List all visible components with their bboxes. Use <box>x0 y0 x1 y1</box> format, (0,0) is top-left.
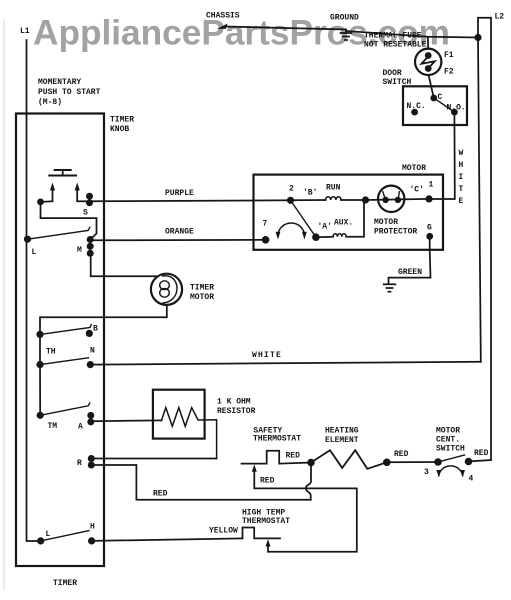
svg-text:T: T <box>459 185 464 194</box>
switch blade L to M <box>28 227 90 239</box>
wire R upper to resistor <box>91 458 216 460</box>
node B <box>86 330 93 337</box>
svg-text:F1: F1 <box>444 51 454 60</box>
node TH lower <box>36 361 43 368</box>
scan edge artifact <box>3 20 5 590</box>
svg-text:'B': 'B' <box>303 189 317 198</box>
wire chassis to ground <box>225 27 346 30</box>
svg-text:RED: RED <box>286 452 301 461</box>
svg-text:L: L <box>32 248 37 257</box>
WHITE vertical label <box>459 149 464 206</box>
chassis arrow <box>217 24 228 30</box>
node 1 ('C') <box>425 195 432 202</box>
wire fuse to door switch C <box>429 75 434 97</box>
svg-text:H: H <box>90 523 95 532</box>
wire L1 vertical <box>27 40 41 541</box>
svg-text:RED: RED <box>153 490 168 499</box>
svg-text:RED: RED <box>474 449 489 458</box>
node H <box>88 537 95 544</box>
node M <box>87 236 94 243</box>
node G <box>426 233 433 240</box>
svg-text:N: N <box>90 347 95 356</box>
timer motor <box>151 274 182 305</box>
svg-text:RED: RED <box>260 477 275 486</box>
svg-text:WHITE: WHITE <box>252 351 282 360</box>
svg-text:1: 1 <box>429 181 434 190</box>
svg-text:TM: TM <box>48 422 58 431</box>
centrifugal swing arrow <box>278 223 304 236</box>
motor box <box>254 175 444 250</box>
motor protector U <box>366 199 430 200</box>
svg-text:H: H <box>459 161 464 170</box>
wire A to resistor <box>91 419 162 422</box>
svg-text:PROTECTOR: PROTECTOR <box>374 228 417 237</box>
svg-text:NOT RESETABLE: NOT RESETABLE <box>364 41 427 50</box>
wire timer motor to TH common <box>40 306 167 335</box>
svg-text:CHASSIS: CHASSIS <box>206 12 240 21</box>
svg-text:GROUND: GROUND <box>330 14 359 23</box>
svg-text:HEATING: HEATING <box>325 427 359 436</box>
node A <box>87 412 94 419</box>
svg-text:A: A <box>78 423 83 432</box>
svg-text:4: 4 <box>469 475 474 484</box>
svg-text:W: W <box>459 149 464 158</box>
svg-text:AUX.: AUX. <box>334 219 353 228</box>
svg-text:MOTOR: MOTOR <box>402 164 426 173</box>
svg-text:7: 7 <box>263 220 268 229</box>
svg-text:MOTOR: MOTOR <box>436 427 460 436</box>
svg-text:DOOR: DOOR <box>383 69 402 78</box>
switch blade TM to A <box>40 403 90 415</box>
svg-text:F2: F2 <box>444 68 454 77</box>
switch blade 2 to A <box>291 200 316 237</box>
svg-text:TIMER: TIMER <box>53 579 77 588</box>
svg-text:RED: RED <box>394 450 409 459</box>
switch blade TH to N <box>40 358 89 365</box>
svg-text:L1: L1 <box>20 27 30 36</box>
svg-text:KNOB: KNOB <box>110 125 129 134</box>
svg-text:THERMOSTAT: THERMOSTAT <box>253 435 301 444</box>
node L (push switch common on L1) <box>24 236 31 243</box>
wire TH to TM <box>39 365 41 416</box>
svg-text:YELLOW: YELLOW <box>209 527 238 536</box>
svg-text:M: M <box>77 246 82 255</box>
node 7 <box>262 236 270 244</box>
node heater junction <box>307 459 315 467</box>
node N <box>87 361 94 368</box>
svg-text:L2: L2 <box>495 13 505 22</box>
svg-text:GREEN: GREEN <box>398 268 422 277</box>
svg-text:'C': 'C' <box>410 186 424 195</box>
svg-text:L: L <box>46 530 51 539</box>
svg-text:MOTOR: MOTOR <box>374 218 398 227</box>
switch blade L to H <box>41 531 89 541</box>
svg-text:THERMAL FUSE: THERMAL FUSE <box>364 32 422 41</box>
svg-text:TIMER: TIMER <box>110 116 134 125</box>
svg-text:'A': 'A' <box>318 223 332 232</box>
svg-text:E: E <box>459 197 464 206</box>
svg-text:TH: TH <box>46 348 56 357</box>
svg-text:RUN: RUN <box>326 184 341 193</box>
svg-text:CENT.: CENT. <box>436 436 460 445</box>
node junction on L2 <box>474 34 481 41</box>
svg-text:B: B <box>93 325 98 334</box>
svg-text:ELEMENT: ELEMENT <box>325 436 359 445</box>
svg-text:(M-8): (M-8) <box>38 98 62 107</box>
timer box <box>16 114 104 567</box>
svg-text:2: 2 <box>289 185 294 194</box>
svg-text:PURPLE: PURPLE <box>165 189 194 198</box>
node L bottom <box>37 537 44 544</box>
wire right arm to S <box>77 200 86 202</box>
svg-text:R: R <box>77 459 82 468</box>
contact arrow and wire to heater loop <box>266 539 271 546</box>
svg-text:SWITCH: SWITCH <box>436 445 465 454</box>
svg-text:MOMENTARY: MOMENTARY <box>38 78 81 87</box>
resistor R1 1K OHM <box>153 390 205 439</box>
ground (green) <box>384 283 396 285</box>
svg-text:1 K OHM: 1 K OHM <box>217 398 251 407</box>
wire L2 top bend and right drop to cent switch <box>469 18 492 462</box>
node A' aux contact <box>312 233 320 241</box>
wire L2 left branch down to white wire <box>478 38 481 362</box>
wire M to timer motor <box>91 253 158 276</box>
node R <box>88 455 95 462</box>
wire TH link <box>39 334 41 364</box>
svg-text:3: 3 <box>424 468 429 477</box>
node winding junction <box>362 196 369 203</box>
wire door N.O. to motor 1 (white) <box>429 112 455 199</box>
svg-text:PUSH TO START: PUSH TO START <box>38 88 101 97</box>
node TM <box>37 412 44 419</box>
svg-text:ORANGE: ORANGE <box>165 228 194 237</box>
wire left arm to M contacts <box>41 201 97 239</box>
switch blade TH to B <box>40 325 91 335</box>
node 2 <box>287 197 294 204</box>
svg-text:S: S <box>83 209 88 218</box>
wire ground to L2 junction <box>346 31 478 38</box>
svg-text:RESISTOR: RESISTOR <box>217 407 256 416</box>
svg-text:TIMER: TIMER <box>190 284 214 293</box>
svg-text:G: G <box>427 224 432 233</box>
momentary push-to-start button <box>55 169 71 171</box>
svg-text:I: I <box>459 173 464 182</box>
node S <box>86 193 93 200</box>
svg-text:THERMOSTAT: THERMOSTAT <box>242 517 290 526</box>
node TH upper <box>36 331 43 338</box>
svg-text:MOTOR: MOTOR <box>190 293 214 302</box>
